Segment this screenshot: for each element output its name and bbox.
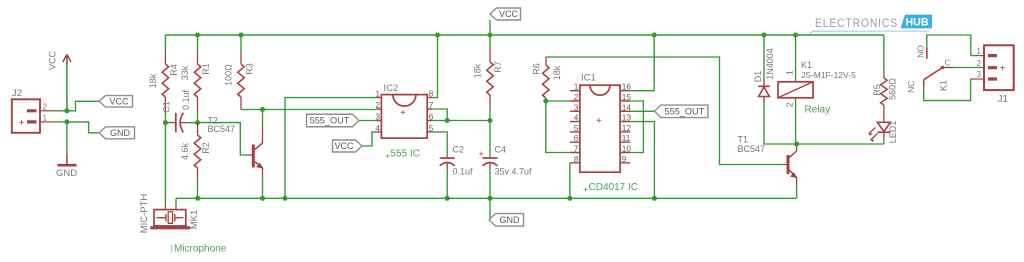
svg-text:0.1uf: 0.1uf xyxy=(181,89,191,110)
wire R5 to LED xyxy=(883,105,885,122)
svg-text:2: 2 xyxy=(977,59,982,68)
svg-text:3: 3 xyxy=(574,102,579,112)
ground symbol GND xyxy=(56,122,77,179)
svg-text:NC: NC xyxy=(906,81,916,93)
svg-text:VCC: VCC xyxy=(334,141,354,151)
relay contact K1 xyxy=(906,45,953,93)
wire T2 base xyxy=(198,123,252,155)
wire rail to R4 xyxy=(164,35,166,64)
svg-text:IC1: IC1 xyxy=(581,73,596,84)
svg-text:C: C xyxy=(945,59,951,68)
svg-text:6: 6 xyxy=(574,133,579,143)
svg-text:10: 10 xyxy=(622,144,632,154)
wire IC1 pin15 to pin10 xyxy=(630,101,643,153)
wire J2 pin1 to GND xyxy=(55,119,99,132)
svg-text:VCC: VCC xyxy=(109,96,129,106)
wire rail to R3 xyxy=(239,33,244,65)
VCC arrow supply symbol xyxy=(48,51,71,111)
svg-text:VCC: VCC xyxy=(48,51,58,71)
wire R4 to C1 node xyxy=(163,97,168,125)
svg-text:560Ω: 560Ω xyxy=(888,78,898,100)
label 555 IC xyxy=(386,149,420,160)
svg-text:1N4004: 1N4004 xyxy=(765,48,775,80)
svg-text:2: 2 xyxy=(43,102,48,111)
wire NO contact to J1 pin1 net xyxy=(927,35,971,56)
svg-text:MIC-PTH: MIC-PTH xyxy=(139,194,150,234)
wire C1 node down to microphone xyxy=(164,123,166,210)
capacitor C4 xyxy=(479,121,533,201)
wire J2 pin2 to VCC xyxy=(55,101,99,113)
svg-text:C4: C4 xyxy=(495,145,507,155)
GND label flag at J2 xyxy=(99,127,135,139)
LED LED1 xyxy=(869,121,899,144)
svg-text:C1: C1 xyxy=(162,101,172,113)
svg-text:33k: 33k xyxy=(180,65,190,80)
ground return net (bottom horizontal) xyxy=(176,197,797,199)
op-amp style body IC2 555 xyxy=(375,83,433,138)
svg-text:1: 1 xyxy=(977,47,982,56)
microphone MK1 xyxy=(139,194,200,234)
wire rail to R1 xyxy=(195,33,200,65)
wire T2 emitter to ground xyxy=(260,168,265,201)
svg-text:R1: R1 xyxy=(201,63,211,75)
svg-text:4: 4 xyxy=(574,113,579,123)
svg-text:5: 5 xyxy=(574,123,579,133)
label CD4017 IC xyxy=(584,182,638,193)
wire 555 pin7 to pin6 xyxy=(432,109,447,121)
wire R2 to mic node xyxy=(195,168,200,201)
label Relay xyxy=(805,105,831,116)
net label 555_OUT at IC1 pin14 xyxy=(654,105,708,118)
wire mic right pin xyxy=(175,198,177,209)
svg-text:R5: R5 xyxy=(872,84,882,96)
svg-text:R6: R6 xyxy=(532,63,542,75)
label Microphone xyxy=(172,244,227,255)
net label 555_OUT at 555 pin3 xyxy=(307,114,377,127)
Electronics Hub logo xyxy=(809,15,932,34)
GND label flag bottom xyxy=(489,198,524,226)
svg-text:J2: J2 xyxy=(12,88,22,99)
relay coil K1 JS-M1F-12V-5 xyxy=(778,60,856,107)
wire R6 node to IC1 pin7 xyxy=(546,101,570,153)
svg-text:1: 1 xyxy=(574,82,579,92)
resistor R6 xyxy=(532,57,562,104)
svg-text:2: 2 xyxy=(574,92,579,102)
diode D1 1N4004 xyxy=(753,48,775,103)
svg-text:LED1: LED1 xyxy=(888,121,898,144)
svg-text:8: 8 xyxy=(574,154,579,164)
svg-text:15: 15 xyxy=(622,92,632,102)
wire 555 pin5 to C2 xyxy=(432,132,447,155)
svg-text:JS-M1F-12V-5: JS-M1F-12V-5 xyxy=(801,70,856,80)
svg-text:R2: R2 xyxy=(201,142,211,154)
svg-text:18k: 18k xyxy=(148,73,158,88)
wire T1 collector xyxy=(796,144,798,151)
svg-text:BC547: BC547 xyxy=(738,144,766,154)
wire T1 base red pin xyxy=(784,164,787,166)
capacitor C2 xyxy=(440,145,473,201)
wire rail to relay pin1 xyxy=(793,33,798,82)
wire rail to D1 xyxy=(762,33,767,79)
svg-text:C2: C2 xyxy=(453,145,465,155)
wire NC contact to J1 pin3 xyxy=(924,79,984,101)
svg-text:IC2: IC2 xyxy=(384,83,399,94)
wire T2 collector xyxy=(260,107,265,143)
svg-text:BC547: BC547 xyxy=(208,124,236,134)
VCC label flag top center xyxy=(488,8,521,38)
svg-text:+: + xyxy=(479,149,484,159)
power rail VCC (top horizontal net) xyxy=(165,34,884,36)
svg-text:ELECTRONICS: ELECTRONICS xyxy=(815,16,898,30)
svg-text:4: 4 xyxy=(375,123,380,133)
wire IC1 pin13 to ground xyxy=(630,122,657,201)
wire R6 to IC1 pin2 xyxy=(546,100,570,102)
svg-text:12: 12 xyxy=(622,123,632,133)
svg-text:555_OUT: 555_OUT xyxy=(310,116,350,126)
connector J1 xyxy=(977,45,1014,105)
wire to J1 pin1 xyxy=(971,55,984,57)
resistor R3 xyxy=(224,63,255,97)
svg-text:2: 2 xyxy=(785,102,795,107)
wire relay pin2 to collector node xyxy=(795,98,797,144)
svg-text:R4: R4 xyxy=(169,64,179,76)
svg-text:11: 11 xyxy=(622,133,631,143)
svg-text:GND: GND xyxy=(56,168,77,179)
wire IC1 pin16 to rail xyxy=(630,33,657,91)
svg-text:Relay: Relay xyxy=(805,105,831,116)
wire R1 to node xyxy=(195,97,200,125)
svg-text:+: + xyxy=(596,116,602,127)
resistor R2 xyxy=(180,123,211,168)
svg-text:K1: K1 xyxy=(801,60,812,70)
svg-text:VCC: VCC xyxy=(499,9,519,19)
svg-text:CD4017 IC: CD4017 IC xyxy=(589,182,638,193)
svg-text:100Ω: 100Ω xyxy=(224,64,234,86)
IC U1 CD4017 body xyxy=(570,73,632,173)
svg-text:HUB: HUB xyxy=(906,16,929,28)
svg-text:GND: GND xyxy=(110,128,131,138)
svg-text:NO: NO xyxy=(916,45,926,58)
transistor T2 BC547 xyxy=(208,115,263,168)
svg-text:1: 1 xyxy=(375,89,380,99)
svg-text:+: + xyxy=(1000,64,1006,75)
svg-text:1: 1 xyxy=(43,114,48,123)
wire 555 pin8 to rail xyxy=(432,33,440,98)
wire 555 pin6 to R7 node xyxy=(432,118,492,123)
svg-text:MK1: MK1 xyxy=(189,210,200,230)
svg-text:3: 3 xyxy=(977,70,982,79)
wire T1 emitter to ground xyxy=(796,178,798,199)
wire 555 pin1 to ground xyxy=(283,98,377,201)
svg-text:13: 13 xyxy=(622,113,632,123)
svg-text:3: 3 xyxy=(375,112,380,122)
resistor R5 xyxy=(872,78,898,105)
capacitor C1 xyxy=(162,89,198,132)
svg-text:+: + xyxy=(19,118,25,129)
svg-text:R7: R7 xyxy=(493,61,503,73)
wire R3 to 555 pin2 xyxy=(241,97,376,110)
svg-text:35v 4.7uf: 35v 4.7uf xyxy=(495,167,533,177)
VCC label flag at J2 xyxy=(99,96,133,108)
svg-text:D1: D1 xyxy=(753,71,763,83)
svg-text:2: 2 xyxy=(375,100,380,110)
svg-text:K1: K1 xyxy=(939,80,949,91)
svg-text:7: 7 xyxy=(574,144,579,154)
svg-text:555_OUT: 555_OUT xyxy=(664,106,704,116)
svg-text:16: 16 xyxy=(622,82,632,92)
svg-text:Microphone: Microphone xyxy=(174,244,227,255)
svg-text:4.6k: 4.6k xyxy=(180,142,190,160)
net from R6 top to T1 base xyxy=(546,57,784,165)
svg-text:J1: J1 xyxy=(998,94,1009,105)
svg-text:+: + xyxy=(400,108,406,119)
svg-text:GND: GND xyxy=(500,215,521,225)
resistor R4 xyxy=(148,64,179,97)
wire C contact to J1 pin2 xyxy=(953,67,984,69)
svg-text:555 IC: 555 IC xyxy=(391,149,420,160)
svg-text:18k: 18k xyxy=(473,63,483,78)
VCC label flag at 555 pin4 xyxy=(333,132,377,152)
svg-text:18k: 18k xyxy=(552,65,562,80)
svg-text:0.1uf: 0.1uf xyxy=(453,167,474,177)
resistor R7 xyxy=(473,35,504,121)
transistor T1 BC547 xyxy=(738,135,797,178)
wire rail to R5 xyxy=(883,35,885,78)
svg-text:14: 14 xyxy=(622,102,632,112)
wire D1 to collector node xyxy=(764,103,884,147)
resistor R1 xyxy=(180,63,211,97)
svg-text:1: 1 xyxy=(785,70,795,75)
wire IC1 pin8 to ground xyxy=(567,163,572,201)
wire LED to collector node xyxy=(883,132,885,144)
svg-text:R3: R3 xyxy=(244,63,254,75)
svg-text:9: 9 xyxy=(622,154,627,164)
connector J2 xyxy=(12,88,55,133)
wire IC1 pin14 to net label xyxy=(630,110,654,112)
